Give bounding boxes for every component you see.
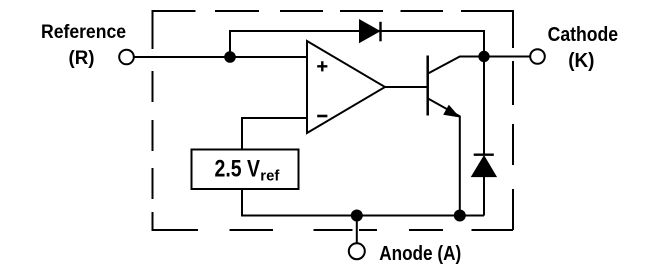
diode D2 (lower, pointing up) <box>472 57 497 216</box>
op-amp U1 <box>307 41 385 133</box>
node: cathode junction dot <box>478 51 489 62</box>
terminal: Reference (R) pin circle <box>119 50 134 65</box>
wire: anode stem <box>356 216 358 244</box>
op-amp + symbol <box>317 61 327 71</box>
op-amp - symbol <box>317 115 327 118</box>
diode D1 (top, pointing right) <box>360 20 381 43</box>
wire: cathode node to terminal <box>484 56 530 58</box>
dashed device boundary: left edge <box>152 10 154 230</box>
terminal: Anode (A) pin circle <box>349 243 365 259</box>
node: junction dot on reference line <box>224 51 236 63</box>
svg-text:2.5 V: 2.5 V <box>215 155 261 182</box>
transistor Q1 base bar <box>426 56 429 116</box>
wire: Reference terminal to op-amp + input <box>134 56 307 58</box>
dashed device boundary: right edge <box>512 10 514 230</box>
wire: reference block output to bottom rail <box>242 189 484 216</box>
transistor Q1 collector <box>428 57 484 74</box>
wire: op-amp output to transistor base <box>385 86 427 88</box>
dashed device boundary: bottom edge <box>152 229 514 231</box>
svg-text:(K): (K) <box>568 50 594 72</box>
svg-text:Anode (A): Anode (A) <box>379 243 461 265</box>
transistor Q1 emitter with arrow <box>428 99 460 216</box>
svg-text:Cathode: Cathode <box>548 24 619 46</box>
node: anode junction dot on bottom rail <box>351 210 363 222</box>
dashed device boundary: top edge <box>152 10 514 12</box>
svg-text:ref: ref <box>260 168 280 185</box>
wire: op-amp minus input to reference block <box>242 118 307 150</box>
2.5 Vref block <box>192 150 299 190</box>
svg-text:(R): (R) <box>69 47 95 69</box>
wire: top branch from node to upper diode and down to cathode node <box>230 31 484 57</box>
terminal: Cathode (K) pin circle <box>530 49 545 64</box>
node: emitter junction dot on bottom rail <box>454 210 466 222</box>
svg-text:Reference: Reference <box>41 21 126 43</box>
